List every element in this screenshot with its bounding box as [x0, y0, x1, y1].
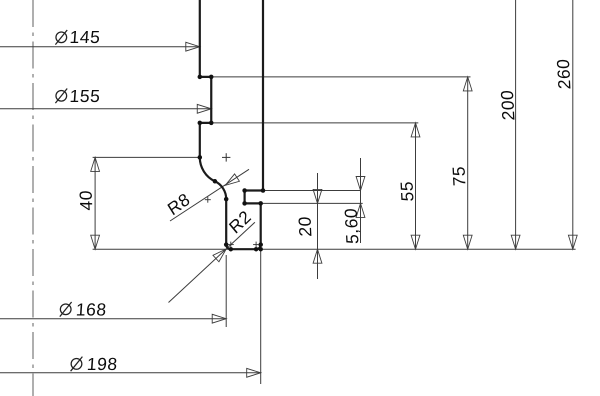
- svg-text:198: 198: [86, 354, 118, 374]
- svg-text:20: 20: [294, 216, 315, 237]
- svg-text:145: 145: [69, 27, 101, 47]
- svg-text:155: 155: [69, 86, 101, 106]
- svg-text:200: 200: [497, 90, 519, 121]
- svg-text:R8: R8: [164, 189, 194, 220]
- svg-text:R2: R2: [225, 206, 255, 238]
- svg-text:40: 40: [75, 190, 96, 211]
- svg-text:55: 55: [396, 181, 417, 202]
- svg-text:5,60: 5,60: [341, 208, 363, 244]
- svg-text:260: 260: [553, 58, 575, 89]
- svg-text:168: 168: [75, 300, 107, 320]
- svg-text:75: 75: [448, 166, 469, 187]
